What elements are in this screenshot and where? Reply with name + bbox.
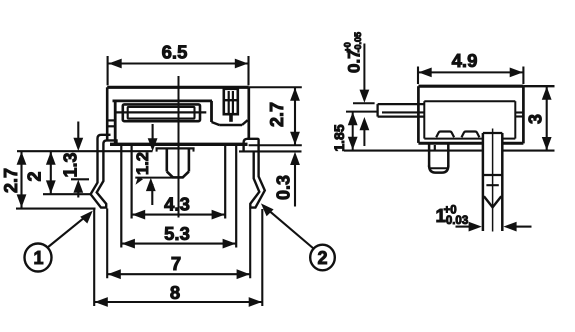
svg-text:2: 2 <box>25 171 45 181</box>
svg-text:2.7: 2.7 <box>267 102 287 127</box>
svg-text:2.7: 2.7 <box>1 168 21 193</box>
svg-text:8: 8 <box>170 282 180 303</box>
svg-text:3: 3 <box>526 114 546 124</box>
svg-text:1.2: 1.2 <box>134 152 152 175</box>
svg-text:7: 7 <box>171 253 181 274</box>
svg-text:2: 2 <box>317 248 327 268</box>
svg-text:-0.05: -0.05 <box>353 32 363 53</box>
svg-text:4.3: 4.3 <box>164 194 190 215</box>
svg-text:+0: +0 <box>343 42 353 52</box>
svg-text:4.9: 4.9 <box>452 50 478 71</box>
svg-text:1.85: 1.85 <box>331 124 347 151</box>
svg-text:-0.03: -0.03 <box>442 215 468 227</box>
svg-text:6.5: 6.5 <box>162 41 188 62</box>
svg-text:1.3: 1.3 <box>61 152 81 177</box>
svg-text:0.3: 0.3 <box>274 175 294 200</box>
svg-text:1: 1 <box>33 248 43 268</box>
svg-text:5.3: 5.3 <box>164 223 190 244</box>
